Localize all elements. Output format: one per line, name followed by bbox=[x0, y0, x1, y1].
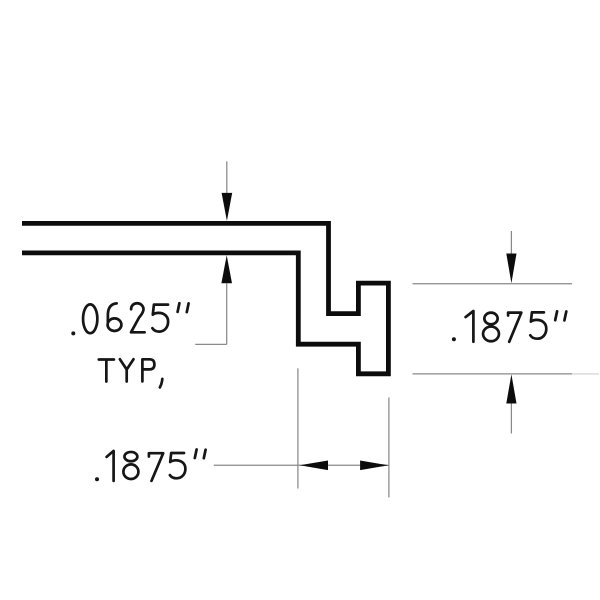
label TYP, bbox=[99, 359, 163, 387]
bottom dim left extension line bbox=[297, 368, 299, 488]
bottom dim left arrowhead bbox=[300, 461, 328, 471]
dim .0625 upper leader line bbox=[226, 161, 228, 194]
right dim lower arrowhead bbox=[506, 374, 516, 403]
right dim bottom extension line bbox=[413, 373, 600, 375]
bottom dim right arrowhead bbox=[360, 461, 388, 471]
dim .0625 lower leader with jog bbox=[195, 283, 227, 344]
bottom dim leader line bbox=[214, 464, 389, 466]
label .0625 inches bbox=[71, 303, 188, 335]
label .1875 inches bottom bbox=[95, 450, 206, 482]
right dim lower leader bbox=[510, 404, 512, 434]
right dim top extension line bbox=[413, 283, 573, 285]
right dim upper arrowhead bbox=[506, 254, 516, 284]
bottom dim right extension line bbox=[388, 398, 390, 498]
right dim upper leader bbox=[510, 231, 512, 257]
dim .0625 lower arrowhead bbox=[221, 255, 232, 283]
part profile outline bbox=[22, 223, 388, 373]
dim .0625 upper arrowhead bbox=[222, 193, 233, 221]
label .1875 inches right bbox=[452, 311, 566, 342]
